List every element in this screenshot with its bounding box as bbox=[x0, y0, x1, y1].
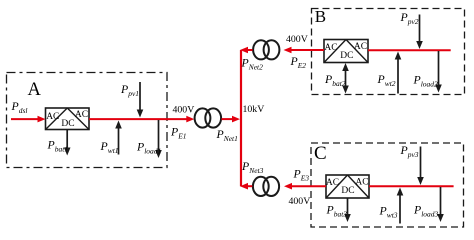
svg-text:A: A bbox=[28, 80, 42, 100]
arrow P_wt3 wind infeed (up to bus C) bbox=[397, 188, 404, 224]
transformer T1 bbox=[195, 108, 222, 127]
microgrid C dashed box bbox=[311, 143, 464, 227]
label P_bat1 bbox=[47, 137, 69, 153]
arrow P_wt1 wind infeed (up to bus A) bbox=[115, 121, 122, 155]
label P_bat3 bbox=[326, 202, 348, 218]
svg-text:10kV: 10kV bbox=[243, 104, 265, 115]
arrow P_bat1 battery discharge (down from U1) bbox=[64, 130, 71, 156]
label P_pv2 bbox=[400, 10, 419, 26]
label B bbox=[315, 7, 326, 26]
wire: diesel input arrow P_dsl into U1 bbox=[11, 116, 46, 123]
svg-text:C: C bbox=[314, 143, 327, 164]
wire: 400V bus C from U3 to transformer T3 bbox=[284, 183, 326, 190]
label P_load3 bbox=[413, 202, 439, 218]
label P_bat2 bbox=[324, 72, 346, 88]
converter U2 AC/DC/AC (microgrid B) bbox=[324, 40, 368, 63]
microgrid B dashed box bbox=[312, 9, 465, 95]
svg-text:AC: AC bbox=[75, 110, 88, 120]
svg-text:DC: DC bbox=[341, 186, 354, 196]
svg-text:DC: DC bbox=[340, 51, 353, 61]
svg-text:400V: 400V bbox=[289, 196, 311, 207]
svg-text:AC: AC bbox=[326, 178, 339, 188]
arrow P_pv2 photovoltaic infeed (down to bus B) bbox=[416, 15, 423, 50]
arrow P_wt2 wind infeed (up to bus B) bbox=[395, 52, 402, 94]
wire: T1 output to 10kV bus bbox=[222, 116, 241, 123]
wire: T3 output into 10kV bus corner bbox=[240, 183, 252, 190]
wire: 400V bus A from U1 to transformer T1 bbox=[89, 116, 194, 123]
svg-text:AC: AC bbox=[324, 43, 337, 53]
label P_Net1 bbox=[216, 127, 238, 143]
arrow P_pv1 photovoltaic infeed (down to bus A) bbox=[137, 82, 144, 118]
converter U1 AC/DC/AC (microgrid A) bbox=[46, 108, 90, 130]
wire: 10kV vertical bus bbox=[240, 50, 242, 186]
label P_wt3 bbox=[379, 203, 398, 219]
wire: 400V bus B from U2 to transformer T2 bbox=[284, 47, 325, 54]
svg-text:B: B bbox=[315, 7, 326, 26]
label C bbox=[314, 143, 327, 164]
label A bbox=[28, 80, 42, 100]
wire: bus B right segment bbox=[368, 49, 451, 51]
svg-text:AC: AC bbox=[355, 177, 368, 187]
label P_wt1 bbox=[100, 139, 119, 155]
svg-text:AC: AC bbox=[46, 112, 59, 122]
label P_Net3 bbox=[241, 159, 264, 175]
label 400V (bus B) bbox=[286, 34, 308, 45]
microgrid A dashed box bbox=[7, 73, 168, 168]
label P_dsl bbox=[11, 99, 28, 115]
svg-text:400V: 400V bbox=[286, 34, 308, 45]
arrow P_bat3 battery discharge (down from U3) bbox=[344, 198, 351, 222]
transformer T2 bbox=[253, 40, 279, 59]
svg-text:AC: AC bbox=[354, 42, 367, 52]
arrow P_load3 load (down from bus C) bbox=[437, 187, 444, 222]
converter U3 AC/DC/AC (microgrid C) bbox=[326, 175, 369, 198]
arrow P_load2 load (down from bus B) bbox=[435, 51, 442, 93]
arrow P_bat2 battery bidirectional (below U2) bbox=[342, 63, 349, 94]
label 400V (bus A) bbox=[173, 105, 195, 116]
svg-text:400V: 400V bbox=[173, 105, 195, 116]
label P_pv1 bbox=[120, 82, 139, 98]
label P_Net2 bbox=[241, 55, 264, 71]
transformer T3 bbox=[253, 177, 279, 196]
arrow P_pv3 photovoltaic infeed (down to bus C) bbox=[417, 147, 424, 186]
wire: T2 output into 10kV bus corner bbox=[240, 47, 253, 54]
wire: bus C right segment bbox=[369, 185, 454, 187]
label P_E1 bbox=[170, 124, 187, 140]
label 400V (bus C) bbox=[289, 196, 311, 207]
label P_load2 bbox=[413, 73, 439, 89]
arrow P_load1 load (down from bus A) bbox=[155, 120, 162, 158]
label P_load1 bbox=[136, 139, 161, 155]
label P_pv3 bbox=[400, 143, 419, 159]
svg-text:DC: DC bbox=[61, 119, 74, 129]
label P_E2 bbox=[290, 54, 307, 70]
label P_E3 bbox=[293, 166, 310, 182]
label 10kV bbox=[243, 104, 265, 115]
label P_wt2 bbox=[377, 72, 396, 88]
